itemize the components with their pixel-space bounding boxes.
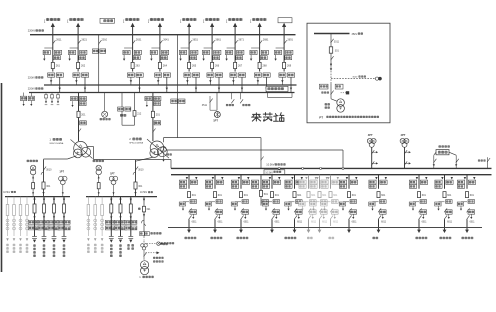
arrester branch left xyxy=(439,201,445,203)
10.5kV spare bay 3 xyxy=(321,175,339,240)
station chain side note xyxy=(153,257,155,259)
CT label box left xyxy=(250,50,257,54)
CT tag box xyxy=(242,200,249,204)
disconnect tick 2 with label xyxy=(378,215,381,219)
outgoing circuit name xyxy=(373,237,375,240)
tag boxes row 1 xyxy=(105,220,111,224)
arrester tag box right xyxy=(420,210,427,214)
10.5kV lai-shui feeder xyxy=(285,175,303,240)
svg-text:SFSZ-150MVA: SFSZ-150MVA xyxy=(129,142,143,145)
station chain winding circles xyxy=(141,244,148,250)
220kV line bay 1 (su-cha A) xyxy=(43,23,63,93)
feeder wire from bus II xyxy=(308,175,310,189)
220kV outgoing line arrow (line bay 2 (su-cha B)) xyxy=(77,25,79,34)
PT bay B winding circles xyxy=(400,138,409,147)
tag boxes row 1 xyxy=(115,220,121,224)
outgoing cable arrow xyxy=(466,219,468,231)
section2 capacitor branch 2 xyxy=(115,197,127,257)
circuit breaker xyxy=(213,192,216,198)
feeder wire from bus II xyxy=(240,175,242,189)
section1 filter branch 2 xyxy=(13,197,16,253)
svg-text:601: 601 xyxy=(333,194,338,197)
breaker xyxy=(110,204,113,213)
series reactor xyxy=(101,205,104,216)
disconnect tick 2 with label xyxy=(294,215,297,219)
tag boxes row 1 xyxy=(38,220,44,224)
breaker xyxy=(43,204,46,213)
section1 filter branch 4 xyxy=(26,197,29,253)
surge arrester arrow xyxy=(123,55,125,60)
section1 grounding transformer xyxy=(27,160,38,197)
CT tag box xyxy=(332,200,339,204)
svg-text:201: 201 xyxy=(81,114,86,117)
T2 winding arrester arrow xyxy=(163,152,165,161)
svg-text:601: 601 xyxy=(422,194,427,197)
bus selector disconnect box (bus III) xyxy=(136,73,143,77)
feeder wire line bay 4 (su-xiang B) xyxy=(159,35,161,72)
series reactor xyxy=(87,205,90,216)
disconnect tick 1 xyxy=(444,208,447,212)
bus selector tag boxes xyxy=(299,180,306,184)
PT bay A winding circles xyxy=(367,138,376,147)
section PT circles xyxy=(59,176,67,184)
bus W3 stub 2612 xyxy=(231,93,233,100)
incoming riser disconnect with label xyxy=(43,167,46,171)
circuit breaker 267 xyxy=(234,62,237,68)
station service right leg xyxy=(449,152,456,155)
drop wire to bus III xyxy=(84,77,86,92)
arrester tag box right xyxy=(242,210,249,214)
svg-text:4PT: 4PT xyxy=(401,133,406,137)
220kV line bay 7 (su-feng A) xyxy=(225,23,245,93)
circuit breaker xyxy=(443,192,446,198)
bus selector disconnect box (bus III) xyxy=(56,73,63,77)
svg-text:220kV: 220kV xyxy=(28,76,35,79)
svg-text:2621: 2621 xyxy=(81,39,87,42)
arrow xyxy=(33,216,35,219)
station chain cable dashes xyxy=(147,243,157,245)
bus selector tag boxes xyxy=(179,180,186,184)
svg-text:6011: 6011 xyxy=(311,222,317,224)
svg-text:35kV: 35kV xyxy=(352,33,358,36)
feeder wire from bus II xyxy=(444,175,446,189)
filter feeder wire xyxy=(26,197,28,236)
circuit breaker xyxy=(329,192,332,198)
arrow to bus xyxy=(134,192,136,195)
outgoing cable arrow xyxy=(240,219,242,231)
feeder wire from bus II xyxy=(271,175,273,189)
disconnect tick xyxy=(78,129,81,133)
svg-text:266: 266 xyxy=(215,65,220,68)
bus coupler breaker 212 xyxy=(133,111,136,117)
inset panel border xyxy=(307,23,390,123)
220kV line bay 9 (spare) xyxy=(274,23,294,93)
capacitor plates xyxy=(109,237,114,239)
svg-text:2681: 2681 xyxy=(263,39,269,42)
inset feeder wire xyxy=(330,34,332,67)
disconnect tag box xyxy=(161,56,168,60)
bus PT riser boxes xyxy=(171,99,177,104)
PT bay A disconnect 2 + branch arrow xyxy=(371,161,374,165)
arrester branch left xyxy=(325,201,331,203)
section2 outgoing branch lai-huang xyxy=(125,197,137,250)
circuit breaker 264 xyxy=(158,62,161,68)
CT label box left xyxy=(150,50,157,54)
arrester branch left xyxy=(289,201,295,203)
10.5kV bus II label box xyxy=(264,170,285,175)
svg-text:2651: 2651 xyxy=(192,39,198,42)
circuit breaker 262 xyxy=(77,62,80,68)
CT tag box xyxy=(446,200,453,204)
circuit breaker 266 xyxy=(211,62,214,68)
bus selector tag boxes xyxy=(321,180,328,184)
station chain cable end xyxy=(157,242,160,245)
surge arrester arrow xyxy=(150,55,152,60)
outgoing cable arrow xyxy=(214,219,216,231)
T1 35kV lead wire xyxy=(67,156,76,159)
circuit breaker 261 xyxy=(51,62,54,68)
svg-text:601: 601 xyxy=(470,194,475,197)
arrow to bus xyxy=(42,192,44,195)
circuit breaker 263 xyxy=(131,62,134,68)
bus junction nubs xyxy=(278,167,280,169)
10.5kV lai-hai feeder xyxy=(435,175,453,240)
svg-text:[: [ xyxy=(123,19,124,23)
bus selector disconnect box (bus III) xyxy=(239,73,246,77)
riser wire xyxy=(43,160,45,197)
disconnect tick 1 xyxy=(241,208,244,212)
disconnect tick 2 with label xyxy=(272,215,275,219)
bus selector tag boxes xyxy=(310,180,317,184)
circuit breaker xyxy=(377,192,380,198)
inset disconnect 2 xyxy=(331,56,334,60)
svg-text:6011: 6011 xyxy=(297,222,303,224)
disconnect tick 1 xyxy=(349,208,352,212)
arrester tag box right xyxy=(310,210,317,214)
outgoing circuit name xyxy=(185,237,187,240)
bus PT riser wire (long vertical) xyxy=(177,35,179,138)
svg-text:601: 601 xyxy=(192,194,197,197)
disconnect tick 2 with label xyxy=(444,215,447,219)
220kV bus W2 xyxy=(44,84,297,86)
svg-text:6011: 6011 xyxy=(333,222,339,224)
bus selector tag boxes xyxy=(205,180,212,184)
svg-text:601: 601 xyxy=(311,194,316,197)
svg-text:6011: 6011 xyxy=(322,222,328,224)
disconnect tick 2 with label xyxy=(330,215,333,219)
svg-text:6011: 6011 xyxy=(422,222,428,224)
svg-text:267: 267 xyxy=(238,65,243,68)
disconnect tag box xyxy=(79,56,86,60)
main transformer 2 bay xyxy=(145,93,161,142)
outgoing cable arrow xyxy=(308,219,310,231)
disconnect tick 2 with label xyxy=(419,215,422,219)
CT tag box xyxy=(273,200,280,204)
CT label box right xyxy=(162,50,169,54)
10.5kV spare bay 1 xyxy=(299,175,317,240)
svg-text:2671: 2671 xyxy=(238,39,244,42)
svg-text:601: 601 xyxy=(322,194,327,197)
disconnect tick 2 with label xyxy=(215,215,218,219)
CT tag box xyxy=(420,200,427,204)
outgoing circuit name xyxy=(211,237,213,240)
section1 capacitor branch 3 xyxy=(48,197,60,257)
svg-text:6011: 6011 xyxy=(192,222,198,224)
station chain arrow mark xyxy=(143,214,145,217)
bus selector tag boxes xyxy=(435,180,442,184)
bus selector disconnect box (bus III) xyxy=(288,73,295,77)
drop wire to bus III xyxy=(241,77,243,92)
disconnect tick 1 xyxy=(467,208,470,212)
svg-text:10.5kV: 10.5kV xyxy=(265,171,273,174)
grounding transformer winding circles xyxy=(96,165,101,175)
surge arrester arrow xyxy=(43,55,45,60)
arrester tag box right xyxy=(216,210,223,214)
220kV line bay 3 (su-xiang A) xyxy=(123,23,143,93)
svg-text:601: 601 xyxy=(275,194,280,197)
bus selector tag boxes xyxy=(369,180,376,184)
220kV outgoing line arrow (line bay 4 (su-xiang B)) xyxy=(159,25,161,34)
PT riser wire with arrow xyxy=(113,185,115,197)
surge arrester arrow xyxy=(203,55,205,60)
section bus 2 (10.5kV cap bank II) xyxy=(86,196,157,198)
bus selector disconnect box (bus II) xyxy=(127,73,134,77)
drop wire to bus III xyxy=(218,77,220,92)
selector arrows xyxy=(157,80,159,82)
capacitor plates xyxy=(128,237,133,239)
CT tag box xyxy=(80,121,87,125)
CT label box right xyxy=(237,50,244,54)
hook symbol xyxy=(41,172,43,175)
capacitor feeder wire xyxy=(110,197,112,237)
disconnect tick 2 with label xyxy=(467,215,470,219)
selector arrows xyxy=(50,80,52,82)
10.5kV spare (labelled) xyxy=(369,175,387,240)
capacitor feeder wire xyxy=(120,197,122,237)
entry arrow xyxy=(119,199,121,202)
circuit breaker xyxy=(318,192,321,198)
disconnect tick 2 with label xyxy=(189,215,192,219)
bus coupler label box xyxy=(100,18,115,23)
section2 grounding transformer xyxy=(93,160,104,197)
entry arrow xyxy=(63,199,65,202)
CT label box right xyxy=(286,50,293,54)
surge arrester arrow xyxy=(69,55,71,60)
svg-text:6011: 6011 xyxy=(470,222,476,224)
PT bay B disconnect 1 + branch arrow xyxy=(404,150,407,154)
circuit breaker xyxy=(417,192,420,198)
disconnect tag box xyxy=(133,56,140,60)
capacitor name (vertical) xyxy=(119,244,121,247)
svg-text:2611: 2611 xyxy=(56,39,62,42)
svg-text:10.5kV: 10.5kV xyxy=(266,163,274,167)
10.5kV lai-hong feeder xyxy=(179,175,197,240)
riser wire xyxy=(32,175,34,197)
circuit breaker 268 xyxy=(258,62,261,68)
T2 drop disconnect tick xyxy=(261,157,264,161)
disconnect tick 2 with label xyxy=(308,215,311,219)
section1 capacitor branch 4 xyxy=(58,197,70,257)
drop wire to bus II xyxy=(281,77,283,85)
breaker xyxy=(42,182,45,189)
section2 capacitor branch 1 xyxy=(105,197,117,257)
main transformer T1 (three winding) xyxy=(71,140,93,159)
svg-text:1PT: 1PT xyxy=(213,118,218,122)
10.5kV lai-yi feeder xyxy=(205,175,223,240)
circuit breaker xyxy=(187,192,190,198)
svg-text:261: 261 xyxy=(56,65,61,68)
PT bay B riser wire xyxy=(404,147,406,168)
svg-text:[: [ xyxy=(250,19,251,23)
surge arrester arrow xyxy=(275,55,277,60)
CT label box left xyxy=(202,50,209,54)
outgoing cable arrow xyxy=(188,219,190,231)
filter name (vertical) xyxy=(87,244,89,247)
filter feeder wire xyxy=(101,197,103,236)
right PT circle xyxy=(214,112,220,118)
tag boxes row 2 xyxy=(125,226,131,230)
capacitor name (vertical) xyxy=(53,244,55,247)
arrester tag box right xyxy=(321,210,328,214)
outgoing cable arrow xyxy=(348,219,350,231)
outgoing name (two vertical columns) xyxy=(127,244,129,246)
disconnect tick 1 xyxy=(378,208,381,212)
tag boxes row 2 xyxy=(105,226,111,230)
filter coil symbols xyxy=(6,219,9,230)
10.5kV PT bay A xyxy=(367,133,378,168)
station chain dash-dot wire xyxy=(143,236,145,243)
section2 filter branch 1 xyxy=(87,197,90,253)
selector arrows xyxy=(75,80,77,82)
up arrows pair xyxy=(98,176,100,179)
CT tag box xyxy=(350,200,357,204)
right end tag box between buses xyxy=(266,86,288,91)
riser wire xyxy=(98,175,100,197)
10.5kV feeder bay xyxy=(339,175,357,233)
bus selector tag boxes xyxy=(457,180,464,184)
outgoing cable arrow xyxy=(444,219,446,231)
drop wire to bus III xyxy=(139,77,141,92)
inset black square terminal xyxy=(346,91,349,94)
svg-text:[: [ xyxy=(180,19,181,23)
station chain hook switch xyxy=(141,220,145,226)
svg-text:4PT: 4PT xyxy=(368,133,373,137)
svg-text:601: 601 xyxy=(381,194,386,197)
CT tag box xyxy=(216,200,223,204)
right PT bay wire xyxy=(216,93,218,111)
CT label box right xyxy=(80,50,87,54)
220kV outgoing line arrow (line bay 3 (su-xiang A)) xyxy=(132,25,134,34)
inset disconnect 3 xyxy=(331,91,334,95)
filter coil symbols xyxy=(19,219,22,230)
breaker xyxy=(32,183,35,189)
station service left leg xyxy=(434,152,436,155)
inset tag box left xyxy=(319,84,328,89)
CT label box right xyxy=(54,50,61,54)
capacitor name (vertical) xyxy=(110,244,112,247)
arrester branch left xyxy=(343,201,349,203)
inset tag box right xyxy=(335,84,343,89)
PT bay B disconnect 2 + branch arrow xyxy=(404,161,407,165)
filter coil symbols xyxy=(101,219,104,230)
tag boxes row 2 xyxy=(38,226,44,230)
arrester branch left xyxy=(303,201,309,203)
arrester tag box right xyxy=(468,210,475,214)
arrow xyxy=(53,216,55,219)
drop wire to bus II xyxy=(257,77,259,85)
CT tag box xyxy=(321,200,328,204)
selector arrows xyxy=(209,80,211,82)
svg-text:2631: 2631 xyxy=(136,39,142,42)
arrow tip xyxy=(101,238,104,241)
transformer feeder wire from bus III xyxy=(152,93,154,142)
bus selector disconnect box (bus III) xyxy=(216,73,223,77)
arrow xyxy=(119,216,121,219)
circuit breaker xyxy=(307,192,310,198)
right end U-link below bus III xyxy=(267,93,269,98)
outgoing circuit name xyxy=(462,237,464,240)
selector arrows xyxy=(232,80,234,82)
station service transformer tag label xyxy=(439,145,441,147)
disconnect tag box xyxy=(190,56,197,60)
T2 10kV winding lead B xyxy=(167,149,344,151)
svg-text:1PT: 1PT xyxy=(59,170,64,173)
CT tag box xyxy=(468,200,475,204)
svg-text:264: 264 xyxy=(163,65,168,68)
series reactor xyxy=(26,205,29,216)
feeder wire line bay 9 (spare) xyxy=(283,35,285,72)
arrester tag box right xyxy=(380,210,387,214)
filter feeder wire xyxy=(20,197,22,236)
svg-text:35kV: 35kV xyxy=(352,77,358,79)
circuit breaker xyxy=(347,192,350,198)
220kV outgoing line arrow (line bay 5 (su-hai A)) xyxy=(188,25,190,34)
up arrows pair xyxy=(32,176,34,179)
filter name (vertical) xyxy=(6,244,8,247)
wire to arrester branch xyxy=(124,47,133,49)
disconnect tick 1 xyxy=(330,208,333,212)
bus W3 PT circle xyxy=(102,111,108,117)
disconnect tick 1 xyxy=(319,208,322,212)
svg-text:220kV: 220kV xyxy=(28,88,35,91)
T2 10kV winding circle xyxy=(161,147,167,153)
station title LAI SU ZHAN (drawn glyph strokes) xyxy=(252,113,284,122)
arrester arrow xyxy=(72,101,74,106)
disconnect tick 2 with label xyxy=(241,215,244,219)
arrester branch left xyxy=(413,201,419,203)
svg-text:2641: 2641 xyxy=(163,39,169,42)
svg-text:212: 212 xyxy=(137,113,142,116)
svg-text:301: 301 xyxy=(138,185,143,188)
bypass CT box right xyxy=(100,49,106,53)
station chain tag boxes with label xyxy=(140,232,145,236)
CT label box left xyxy=(274,50,281,54)
bus selector disconnect box (bus II) xyxy=(254,73,261,77)
station service transformer box xyxy=(436,150,449,155)
PT bay A riser wire xyxy=(371,147,373,168)
circuit breaker xyxy=(239,192,242,198)
filter feeder wire xyxy=(94,197,96,236)
feeder wire from bus II xyxy=(319,175,321,189)
220kV bus W1 (main) xyxy=(30,34,296,36)
capacitor feeder wire xyxy=(53,197,55,237)
drop wire to bus III xyxy=(266,77,268,92)
CT label box right xyxy=(191,50,198,54)
capacitor plates xyxy=(62,237,67,239)
svg-text:2691: 2691 xyxy=(287,39,293,42)
wire to arrester branch xyxy=(227,47,236,49)
tag boxes row 1 xyxy=(125,220,131,224)
